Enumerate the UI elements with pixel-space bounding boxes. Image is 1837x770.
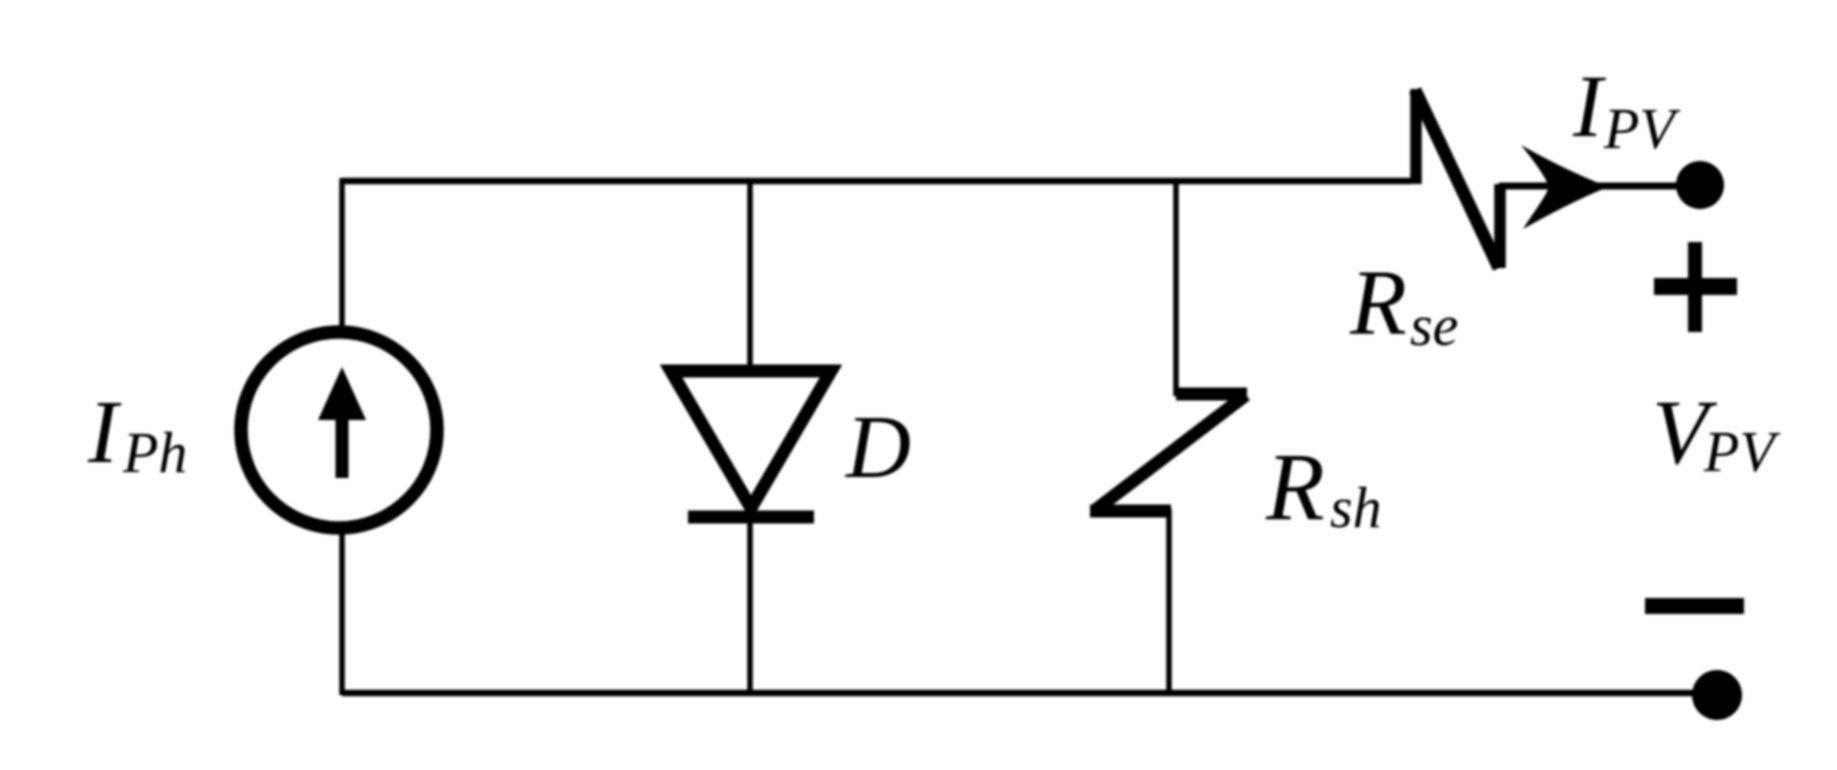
svg-text:R: R <box>1265 433 1325 540</box>
resistor Rsh top bar <box>1176 388 1247 401</box>
wire left vertical upper <box>339 178 345 334</box>
svg-text:I: I <box>1572 58 1607 156</box>
resistor Rsh diagonal <box>1094 395 1246 511</box>
svg-text:I: I <box>87 383 122 482</box>
svg-text:se: se <box>1410 293 1458 358</box>
svg-text:PV: PV <box>1703 419 1781 484</box>
svg-text:Ph: Ph <box>122 420 187 485</box>
resistor Rsh bottom bar <box>1090 505 1171 518</box>
svg-text:sh: sh <box>1330 475 1382 540</box>
minus sign <box>1645 598 1744 614</box>
resistor Rse diagonal <box>1415 90 1499 268</box>
wire bottom horizontal <box>342 690 1717 697</box>
svg-text:D: D <box>844 398 911 497</box>
node terminal dot bottom <box>1692 670 1742 720</box>
resistor Rse left vertical <box>1410 89 1422 184</box>
wire Rsh branch lower <box>1166 509 1172 693</box>
wire diode branch lower <box>747 517 753 693</box>
resistor Rse right vertical <box>1494 184 1506 268</box>
wire top horizontal <box>342 178 1411 185</box>
wire diode branch upper <box>747 181 753 370</box>
arrowhead I_PV <box>1521 145 1608 229</box>
node terminal dot top <box>1676 161 1724 209</box>
current source arrow <box>318 367 366 478</box>
svg-text:PV: PV <box>1603 96 1681 161</box>
wire left vertical lower <box>339 528 345 695</box>
plus sign <box>1654 278 1737 295</box>
wire output to terminal <box>1499 183 1700 190</box>
diode D triangle <box>671 371 831 508</box>
diode cathode bar <box>688 511 814 524</box>
wire Rsh branch upper <box>1173 181 1179 396</box>
svg-text:R: R <box>1349 252 1407 355</box>
current source I_Ph circle <box>241 332 437 528</box>
